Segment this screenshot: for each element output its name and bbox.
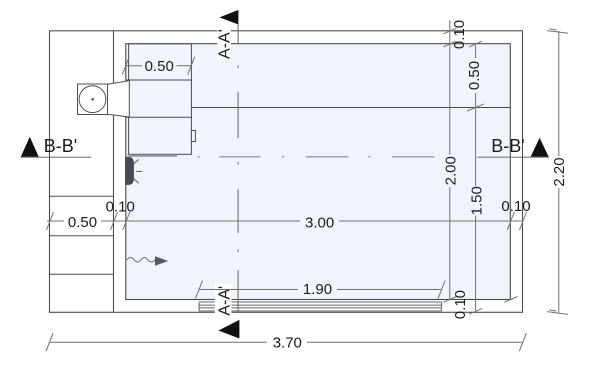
svg-text:0.50: 0.50 xyxy=(466,61,483,90)
room top strip line xyxy=(191,107,510,109)
svg-text:3.70: 3.70 xyxy=(273,334,302,351)
svg-text:0.10: 0.10 xyxy=(451,20,468,49)
svg-text:1.50: 1.50 xyxy=(468,186,485,215)
tick room bottom right xyxy=(504,297,517,303)
dimension extension line B (1.50) xyxy=(467,41,484,314)
window (sliding glass door) xyxy=(199,302,442,311)
boiler square xyxy=(78,84,108,115)
section line B-B centerline xyxy=(198,156,435,158)
counter handle xyxy=(191,131,195,142)
svg-text:A-A': A-A' xyxy=(217,29,234,59)
svg-text:2.00: 2.00 xyxy=(442,156,459,185)
section marker B-B left line xyxy=(21,156,92,158)
svg-text:0.10: 0.10 xyxy=(501,198,530,215)
dimension 3.70 overall xyxy=(46,333,526,351)
boiler circle xyxy=(79,86,106,113)
section marker B-B right triangle xyxy=(530,138,549,158)
room (blue floor) xyxy=(126,44,511,300)
section marker A-A bottom label halo xyxy=(215,284,232,317)
section marker A-A top triangle xyxy=(219,10,238,25)
svg-text:2.20: 2.20 xyxy=(551,157,568,186)
dimension 0.50 counter top xyxy=(122,57,194,75)
svg-text:1.90: 1.90 xyxy=(303,281,332,298)
boiler center dot xyxy=(92,98,94,100)
svg-text:3.00: 3.00 xyxy=(305,214,334,231)
dimension line bottom interior (0.50 / 3.00) xyxy=(47,212,527,230)
dimension 1.90 window xyxy=(196,281,446,299)
flue duct xyxy=(108,81,130,118)
svg-text:B-B': B-B' xyxy=(491,136,524,156)
counter shadow bar xyxy=(128,155,178,157)
section marker B-B right line xyxy=(477,156,549,158)
stair step 1 xyxy=(50,195,114,197)
svg-text:0.50: 0.50 xyxy=(68,214,97,231)
section marker A-A bottom triangle xyxy=(218,320,239,339)
svg-text:0.10: 0.10 xyxy=(452,290,469,319)
dimension 2.20 overall right xyxy=(547,29,568,315)
door leaf xyxy=(126,158,134,185)
room bottom edge extension xyxy=(510,299,512,301)
stair step 3 xyxy=(50,273,114,275)
dimension extension line A (2.00) xyxy=(443,20,456,302)
kitchen counter xyxy=(126,44,192,154)
porch divider wall xyxy=(113,31,115,313)
svg-text:0.10: 0.10 xyxy=(106,199,135,216)
section line A-A centerline xyxy=(237,25,239,313)
door rays xyxy=(133,159,142,183)
section marker A-A top label halo xyxy=(217,29,231,60)
svg-text:A-A': A-A' xyxy=(217,286,234,316)
entrance squiggle arrow xyxy=(127,256,168,266)
section marker B-B left triangle xyxy=(21,137,39,157)
stair step 2 xyxy=(50,235,114,237)
svg-text:B-B': B-B' xyxy=(44,136,77,156)
svg-text:0.50: 0.50 xyxy=(145,58,174,75)
outer wall rectangle xyxy=(50,31,523,313)
